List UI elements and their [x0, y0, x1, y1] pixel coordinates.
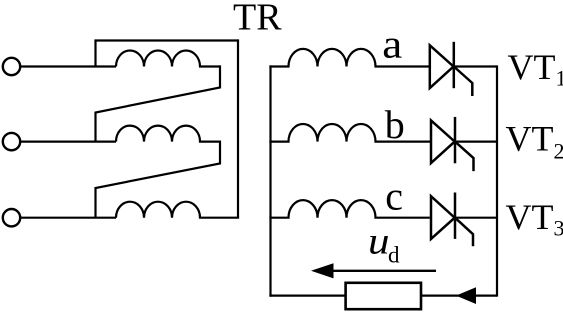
svg-text:TR: TR: [233, 0, 282, 39]
thyristor VT3 triangle: [431, 196, 455, 239]
delta link winding2 to winding3 (down + diagonal): [96, 141, 221, 218]
secondary left bus: [269, 65, 271, 296]
primary right bus: [237, 39, 239, 217]
secondary right bus: [496, 65, 498, 296]
svg-text:d: d: [388, 242, 400, 267]
thyristor VT3 cathode bar: [454, 193, 457, 239]
thyristor VT2 triangle: [431, 120, 455, 163]
svg-text:VT1: VT1: [508, 47, 563, 91]
wire terminal B to primary bus: [20, 141, 116, 143]
delta link winding1 to winding2 (down + diagonal): [96, 65, 221, 141]
transformer primary winding 1: [116, 51, 220, 67]
wire VT2 cathode to right bus: [455, 141, 497, 143]
svg-text:c: c: [385, 173, 403, 218]
wire terminal C to primary bus: [20, 217, 116, 219]
thyristor VT1 cathode bar: [453, 42, 456, 88]
svg-text:u: u: [368, 221, 390, 263]
svg-text:b: b: [385, 102, 405, 147]
u_d direction arrow shaft: [330, 270, 436, 272]
bottom wire right (load to bus): [421, 295, 497, 297]
wire VT3 cathode to right bus: [455, 217, 497, 219]
thyristor VT2 cathode bar: [454, 117, 457, 163]
wire VT1 cathode to right bus: [454, 65, 497, 67]
transformer primary winding 3: [116, 202, 239, 218]
transformer primary winding 2: [116, 126, 220, 142]
svg-text:VT3: VT3: [506, 197, 563, 241]
bottom wire left (bus to load): [269, 295, 345, 297]
thyristor VT3 gate lead: [455, 218, 473, 247]
secondary winding b: [269, 124, 431, 142]
terminal circle phase B: [3, 133, 20, 150]
svg-text:VT2: VT2: [506, 119, 563, 164]
thyristor VT2 gate lead: [455, 142, 474, 172]
thyristor VT1 triangle: [430, 45, 454, 88]
primary left bus segment 1: [94, 41, 96, 67]
u_d direction arrow head: [311, 263, 334, 278]
current direction arrow head on bottom wire: [456, 287, 476, 304]
terminal circle phase A: [3, 58, 20, 75]
svg-text:a: a: [382, 21, 402, 66]
terminal circle phase C: [3, 209, 20, 226]
thyristor VT1 gate lead: [454, 67, 473, 97]
primary top wire: [94, 39, 238, 41]
load resistor box: [346, 283, 421, 309]
wire terminal A to primary bus: [20, 65, 116, 67]
secondary winding c: [269, 200, 429, 218]
secondary winding a: [269, 49, 429, 67]
